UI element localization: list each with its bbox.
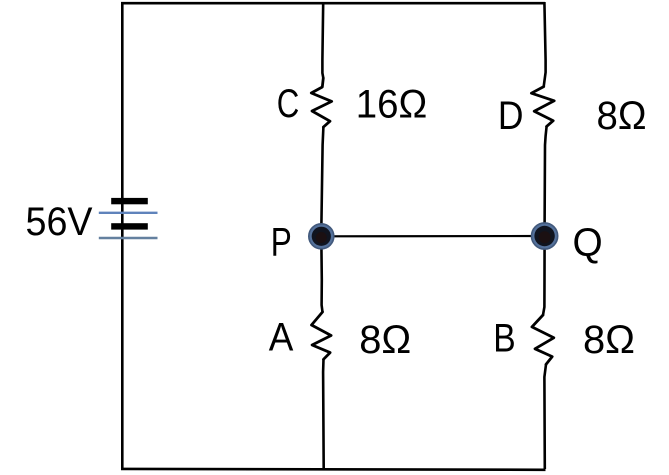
resistor D (zigzag) (531, 87, 554, 127)
resistor C (zigzag) (311, 78, 331, 127)
node Q (junction dot with blue ring) (532, 223, 558, 249)
wire: right branch between node Q and resistor B (543, 236, 545, 315)
svg-text:A: A (269, 316, 294, 360)
battery V1 plate: upper thick (short) plate (111, 198, 148, 204)
battery V1 plate: lower thin (long) blue plate (99, 237, 158, 239)
wire: top side of outer loop (121, 2, 545, 5)
svg-text:8Ω: 8Ω (583, 318, 635, 362)
wire: middle branch upper segment (top to resistor C) (321, 2, 324, 78)
svg-text:8Ω: 8Ω (597, 94, 647, 138)
wire: middle branch between resistor C and node P (321, 127, 323, 236)
svg-text:P: P (271, 221, 292, 265)
battery V1 plate: upper thin (long) blue plate (99, 212, 158, 214)
svg-text:16Ω: 16Ω (356, 83, 428, 127)
node P (junction dot with blue ring) (309, 224, 334, 249)
svg-text:56V: 56V (26, 200, 93, 244)
wire: right branch lower segment (resistor B to bottom) (544, 364, 546, 469)
svg-text:D: D (498, 94, 524, 138)
wire: right branch between resistor D and node Q (545, 126, 547, 236)
resistor A (zigzag) (312, 312, 332, 359)
wire: middle branch lower segment (resistor A to bottom) (322, 359, 325, 469)
wire: bottom side of outer loop (121, 468, 546, 471)
wire: middle branch between node P and resistor A (321, 236, 322, 312)
svg-text:Q: Q (573, 221, 603, 265)
resistor B (zigzag) (532, 315, 554, 364)
svg-text:C: C (277, 82, 300, 126)
battery V1 plate: lower thick (short) plate (111, 223, 148, 229)
wire: left side of outer loop (121, 2, 124, 470)
svg-text:B: B (493, 317, 515, 361)
svg-text:8Ω: 8Ω (359, 318, 411, 362)
wire: node P to node Q horizontal link (321, 235, 544, 238)
wire: right branch upper segment (top to resistor D) (544, 2, 546, 87)
